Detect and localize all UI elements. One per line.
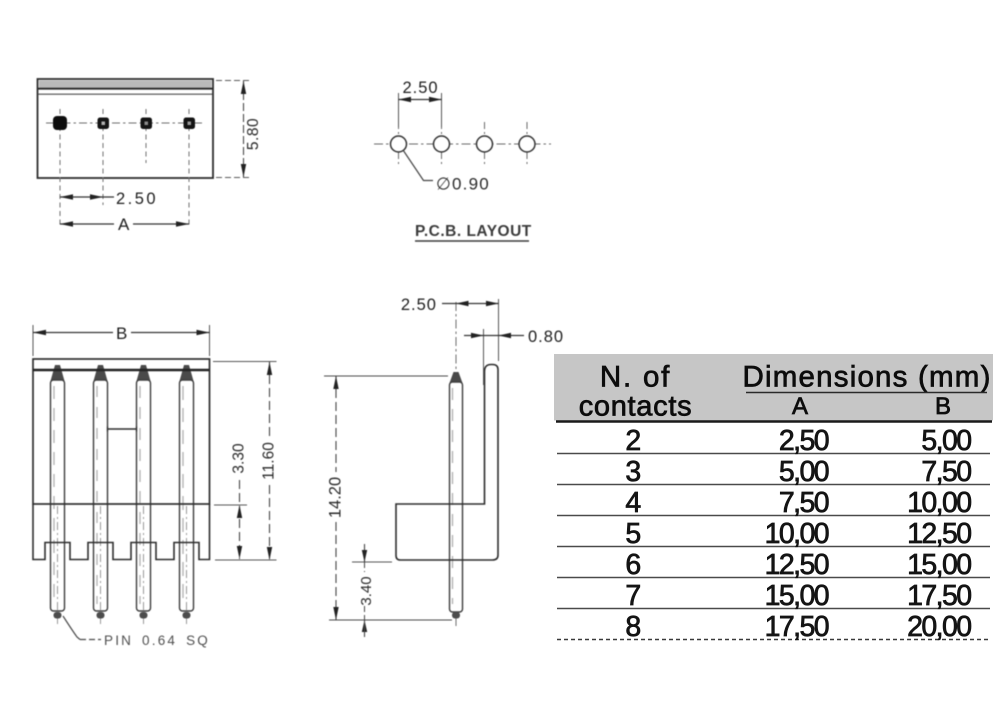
front view pin 4 <box>180 365 194 624</box>
pin spec leader <box>63 616 80 640</box>
top view pin 4 <box>184 118 196 130</box>
svg-text:15,00: 15,00 <box>765 580 829 612</box>
dimension 14.20 extension lines <box>324 375 448 377</box>
svg-text:5,00: 5,00 <box>779 456 829 488</box>
top view pin3 centerline <box>145 109 147 163</box>
side view body outline <box>396 365 498 561</box>
front view castellated base outline <box>33 504 210 560</box>
dimension B extension lines <box>32 325 34 356</box>
dimension 3.40 line lower <box>364 620 366 637</box>
svg-text:6: 6 <box>625 549 640 581</box>
svg-text:3.30: 3.30 <box>231 443 248 474</box>
svg-text:2.50: 2.50 <box>402 79 438 97</box>
top view housing body <box>38 79 214 178</box>
svg-text:2.50: 2.50 <box>401 296 437 314</box>
dimension 3.40 arrows <box>362 550 367 562</box>
svg-text:3.40: 3.40 <box>358 576 375 605</box>
table header underline <box>746 392 987 394</box>
dimension 3.30 arrows <box>237 505 242 518</box>
svg-text:∅0.90: ∅0.90 <box>436 175 490 194</box>
svg-text:2: 2 <box>625 425 640 457</box>
svg-text:14.20: 14.20 <box>327 477 345 518</box>
svg-text:2.50: 2.50 <box>116 190 158 208</box>
dimension A text <box>114 215 133 231</box>
dimension 11.60 extension lines <box>213 361 277 363</box>
svg-text:7,50: 7,50 <box>779 487 829 519</box>
pcb hole diameter leader <box>403 150 433 181</box>
svg-text:7,50: 7,50 <box>921 456 971 488</box>
top view pin 2 <box>98 118 110 130</box>
front view key bridge pins 2-3 <box>108 428 137 430</box>
svg-text:17,50: 17,50 <box>907 580 971 612</box>
svg-text:12,50: 12,50 <box>907 518 971 550</box>
dimension 5.80 extension lines <box>216 80 249 82</box>
svg-text:5.80: 5.80 <box>245 118 262 150</box>
svg-text:4: 4 <box>625 487 641 519</box>
svg-text:5: 5 <box>625 518 640 550</box>
side dimension 2.50 line <box>442 303 499 305</box>
svg-text:5,00: 5,00 <box>921 425 971 457</box>
front view pin 3 <box>137 365 151 624</box>
svg-text:A: A <box>792 393 808 420</box>
dimension 11.60 arrows <box>267 362 272 375</box>
top view pin4 centerline extension <box>188 109 190 228</box>
dimension 14.20 arrows <box>333 376 338 389</box>
dimension 3.40 line upper <box>364 544 366 562</box>
svg-text:12,50: 12,50 <box>765 549 829 581</box>
pcb hole 3 <box>477 136 493 152</box>
dimension B arrows <box>33 330 46 335</box>
top view horizontal centerline <box>46 122 202 124</box>
dimension 5.80 arrows <box>241 81 246 94</box>
svg-text:Dimensions (mm): Dimensions (mm) <box>743 361 992 394</box>
front view pin 2 <box>94 365 108 624</box>
svg-text:10,00: 10,00 <box>907 487 971 519</box>
front view wall band line <box>33 369 210 371</box>
dimension 3.40 extension line <box>352 561 392 563</box>
svg-text:15,00: 15,00 <box>907 549 971 581</box>
svg-text:2,50: 2,50 <box>779 425 829 457</box>
dimension 3.30 extension line <box>214 504 247 506</box>
pcb horizontal centerline <box>374 143 551 145</box>
dimension 3.30 line <box>239 480 241 559</box>
dimension 5.80 line <box>243 81 245 177</box>
pcb hole vertical centerlines <box>398 122 400 166</box>
svg-text:0.80: 0.80 <box>528 328 564 346</box>
top view wall inner line 2 <box>38 93 213 95</box>
pcb hole 1 <box>391 136 407 152</box>
svg-text:20,00: 20,00 <box>907 611 971 643</box>
dimension 3.30 text <box>232 441 247 479</box>
svg-text:P.C.B. LAYOUT: P.C.B. LAYOUT <box>415 223 532 240</box>
pcb dimension 2.50 arrows <box>399 97 412 102</box>
side dimension 0.80 line <box>464 335 524 337</box>
top view pin 1 (square pad) <box>53 116 67 130</box>
svg-text:B: B <box>935 393 951 420</box>
pcb layout title underline <box>415 240 529 242</box>
dimension 14.20 line <box>335 376 337 472</box>
svg-text:contacts: contacts <box>579 391 693 423</box>
top view housing wall band (hatched strip) <box>39 81 212 89</box>
pcb dimension 2.50 extension lines <box>398 93 400 127</box>
pcb hole 4 <box>519 136 535 152</box>
side dimension 0.80 arrows <box>471 333 484 338</box>
dimension B line <box>33 332 210 334</box>
table header background <box>554 354 993 421</box>
svg-text:8: 8 <box>625 611 640 643</box>
dimension A arrows <box>60 221 73 226</box>
side dimension 2.50 extension line <box>498 299 500 361</box>
top view pin 3 <box>141 118 153 130</box>
svg-text:7: 7 <box>625 580 640 612</box>
side dimension 2.50 arrows <box>456 301 469 306</box>
top view wall inner line 1 <box>38 88 213 90</box>
dimension A line <box>60 223 189 225</box>
svg-text:3: 3 <box>625 456 640 488</box>
pcb hole 2 <box>434 136 450 152</box>
dimension 2.50 arrow right <box>90 194 103 199</box>
svg-text:17,50: 17,50 <box>765 611 829 643</box>
dimension 2.50 (top view pitch) line <box>60 196 114 198</box>
front view pin 1 <box>51 365 65 624</box>
pcb dimension 2.50 line <box>399 99 442 101</box>
svg-text:11.60: 11.60 <box>261 442 278 480</box>
table row separators <box>557 453 990 455</box>
side view pin centerline <box>455 302 457 628</box>
front view housing body <box>33 359 210 504</box>
svg-text:A: A <box>118 215 130 234</box>
top view pin2 centerline extension <box>102 109 104 205</box>
side view pin <box>450 372 463 619</box>
svg-text:N. of: N. of <box>600 361 671 394</box>
dimension 11.60 line <box>269 362 271 437</box>
svg-text:10,00: 10,00 <box>765 518 829 550</box>
table header rule <box>556 420 992 423</box>
dimension 2.50 arrow left <box>60 194 73 199</box>
top view pin1 centerline extension <box>59 109 61 228</box>
dimension B text <box>113 323 131 340</box>
table data rows <box>625 425 971 643</box>
side dimension 0.80 extension line <box>483 329 485 385</box>
svg-text:PIN 0.64 SQ: PIN 0.64 SQ <box>104 633 210 648</box>
svg-text:B: B <box>116 324 127 343</box>
